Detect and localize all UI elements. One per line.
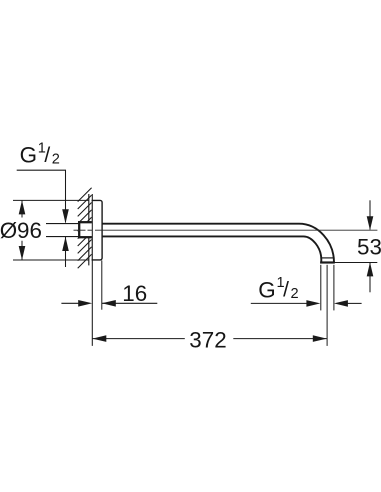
G1/2 lower arrow tail line (65, 237, 67, 267)
svg-text:/: / (44, 144, 50, 167)
G1/2 up arrowhead at tube bottom (62, 237, 69, 251)
dia96 top extension line (13, 199, 89, 201)
wall hatching (78, 188, 92, 269)
centerline main segment, extends right as 53-dim top extension (95, 229, 377, 231)
svg-text:Ø: Ø (0, 218, 17, 243)
shower arm tube bottom outline with bend (102, 236, 321, 263)
53 up arrowhead (367, 262, 374, 276)
wall surface line with extension down to 372 dimension (91, 194, 93, 346)
372 right arrowhead at pipe centre (313, 335, 327, 342)
G1/2 label underline (17, 169, 66, 171)
flange front extension line (101, 261, 103, 310)
dia96 dimension line upper segment (21, 200, 23, 217)
G1/2 leader line down (65, 170, 67, 222)
pipe centre extension line down to 372 dimension (326, 265, 328, 346)
label G 1/2 top-left (20, 140, 60, 167)
dia96 up arrowhead (19, 200, 26, 214)
16 dimension left tail line (61, 302, 80, 304)
thread bottom extension line left of fitting (46, 236, 80, 238)
53 bottom extension line (334, 262, 377, 264)
372 dimension line left segment (92, 338, 185, 340)
pipe right edge extension line below mouth (333, 265, 335, 311)
372 left arrowhead at wall (92, 335, 106, 342)
wall flange (escutcheon) (92, 200, 103, 260)
thread top extension line left of fitting (46, 223, 80, 225)
dia96 bottom extension line (13, 259, 89, 261)
outlet thread band top line (321, 257, 334, 259)
shower arm tube top outline with bend (102, 224, 334, 263)
right G1/2 opposing tail line (347, 302, 362, 304)
svg-text:16: 16 (122, 281, 147, 306)
right G1/2 arrowhead at pipe left edge (306, 300, 320, 307)
wall back line (88, 194, 90, 265)
16 dimension right tail line (102, 302, 158, 304)
label G 1/2 right (258, 275, 298, 302)
53 down arrowhead (367, 216, 374, 230)
53 bottom arrow tail line (369, 262, 371, 292)
right G1/2 leader line (251, 302, 308, 304)
svg-text:2: 2 (52, 151, 60, 167)
svg-text:/: / (283, 279, 289, 302)
16 left arrowhead pointing right (78, 300, 92, 307)
G1/2 down arrowhead at tube top (62, 209, 69, 223)
centerline dash segment 1 (74, 229, 86, 231)
svg-text:2: 2 (291, 286, 299, 302)
outlet mouth bottom line (320, 261, 335, 263)
372 dimension line right segment (233, 338, 326, 340)
svg-text:G: G (258, 277, 275, 302)
dia96 dimension line lower segment (21, 241, 23, 260)
pipe left edge extension line below mouth (320, 265, 322, 311)
svg-text:53: 53 (357, 234, 381, 259)
svg-text:G: G (20, 143, 37, 168)
centerline dash segment 2 (88, 229, 93, 231)
53 top arrow tail line (369, 200, 371, 229)
label dia 96 (0, 218, 42, 243)
svg-text:372: 372 (189, 327, 226, 352)
svg-text:96: 96 (17, 218, 42, 243)
threaded fitting in wall (78, 221, 92, 238)
right G1/2 arrowhead at pipe right edge (334, 300, 348, 307)
16 right arrowhead pointing left (102, 300, 116, 307)
dia96 down arrowhead (19, 246, 26, 260)
